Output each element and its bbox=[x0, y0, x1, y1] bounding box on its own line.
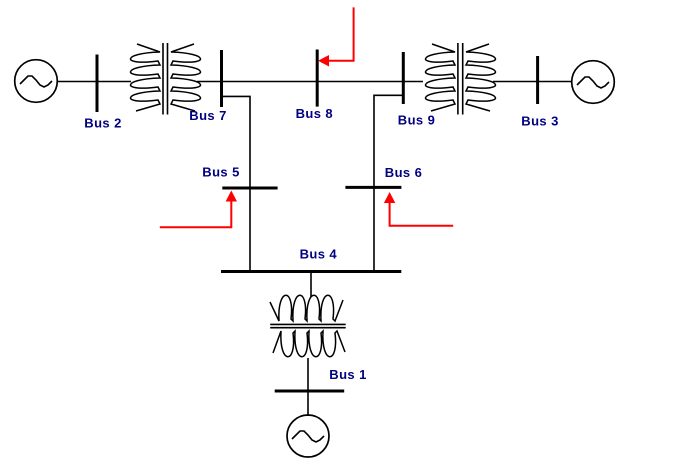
bus 5 bbox=[222, 187, 277, 190]
bus 1 bbox=[275, 390, 345, 393]
svg-text:Bus 1: Bus 1 bbox=[329, 367, 366, 382]
wire transformer to G3 bbox=[493, 81, 572, 83]
arrow into bus 6 (red) bbox=[384, 192, 453, 226]
wire bus4 to transformer T1 bbox=[310, 272, 312, 298]
transformer T2 (left) bbox=[130, 43, 200, 115]
generator G3 (right) bbox=[572, 61, 615, 104]
transformer T1 (bottom) bbox=[270, 295, 346, 357]
svg-text:Bus 8: Bus 8 bbox=[296, 106, 333, 121]
svg-text:Bus 2: Bus 2 bbox=[84, 116, 121, 131]
bus 9 bbox=[402, 52, 405, 104]
bus 3 bbox=[536, 56, 539, 104]
wire bus9 branch to vertical bbox=[374, 95, 403, 271]
transformer T3 (right) bbox=[425, 43, 495, 115]
svg-text:Bus 6: Bus 6 bbox=[385, 165, 422, 180]
bus 2 bbox=[96, 55, 99, 113]
svg-text:Bus 9: Bus 9 bbox=[398, 113, 435, 128]
wire bus7 branch to vertical bbox=[222, 96, 251, 271]
wire transformer T1 to bus 1 and G1 bbox=[307, 358, 309, 416]
bus 7 bbox=[220, 50, 223, 107]
svg-text:Bus 3: Bus 3 bbox=[521, 114, 558, 129]
generator G2 (left) bbox=[15, 60, 58, 103]
svg-text:Bus 5: Bus 5 bbox=[202, 165, 239, 180]
wire G2 to transformer bbox=[57, 81, 131, 83]
bus 6 bbox=[345, 186, 401, 189]
bus 8 bbox=[316, 50, 319, 107]
svg-text:Bus 7: Bus 7 bbox=[189, 108, 226, 123]
generator G1 (bottom) bbox=[287, 415, 329, 457]
svg-text:Bus 4: Bus 4 bbox=[300, 247, 338, 262]
arrow into bus 8 (red) bbox=[318, 7, 354, 66]
wire transformer to bus7/bus8/bus9 bbox=[197, 81, 423, 83]
bus 4 bbox=[221, 270, 401, 273]
arrow into bus 5 (red) bbox=[160, 191, 237, 228]
